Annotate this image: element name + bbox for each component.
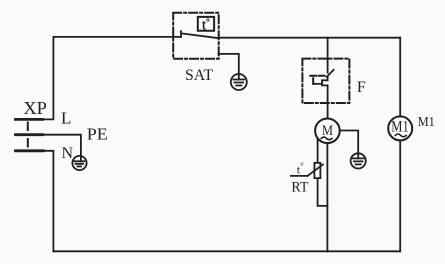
wire L xyxy=(42,37,53,120)
ground PE xyxy=(72,156,86,170)
wire M to ground xyxy=(340,131,359,154)
wire M1 branch top xyxy=(399,38,401,117)
thermistor RT xyxy=(291,163,323,178)
svg-text:F: F xyxy=(357,79,366,96)
protector F box xyxy=(302,59,349,103)
svg-text:t°: t° xyxy=(297,161,304,177)
thermostat SAT box xyxy=(173,13,219,59)
ground M xyxy=(351,153,366,168)
wire bottom rail xyxy=(53,250,400,252)
wire N xyxy=(42,151,53,252)
wire SAT case to ground xyxy=(219,54,239,74)
wire F branch xyxy=(327,38,329,73)
wire M1 branch bottom xyxy=(399,140,401,251)
svg-text:N: N xyxy=(61,145,73,162)
connector XP xyxy=(15,119,43,150)
svg-text:PE: PE xyxy=(87,125,108,144)
wire PE xyxy=(42,135,80,157)
svg-text:M1: M1 xyxy=(391,119,409,136)
motor M1 xyxy=(388,116,412,140)
wire top rail right xyxy=(219,37,401,39)
wire F to motor xyxy=(327,101,329,118)
svg-text:M1: M1 xyxy=(418,115,435,130)
ground SAT xyxy=(231,74,247,90)
sensor t° box (SAT) xyxy=(198,17,214,34)
svg-text:SAT: SAT xyxy=(185,67,213,84)
wire top rail xyxy=(53,36,181,38)
switch F thermal contact xyxy=(310,70,333,102)
motor M xyxy=(315,119,340,144)
svg-text:RT: RT xyxy=(291,180,308,196)
switch SAT contact xyxy=(181,31,219,38)
wire RT branch xyxy=(318,139,328,206)
svg-text:L: L xyxy=(61,109,71,128)
wire M down xyxy=(326,143,328,251)
svg-text:XP: XP xyxy=(23,98,47,118)
